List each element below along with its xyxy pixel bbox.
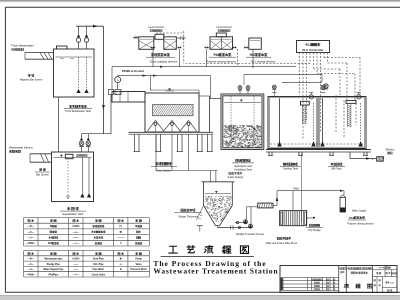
tank B internal box [346,101,356,104]
tank B feed pump top [321,85,325,90]
effluent outfall box [377,157,384,162]
settler pedestal [129,131,214,133]
equalization water line [54,156,92,158]
sludge suction line 2 [235,222,245,224]
lime tank D2 [164,37,177,50]
svg-text:Settling Tank: Settling Tank [283,167,299,171]
equalization suction pipes [81,157,83,193]
sludge line valve [230,225,232,229]
thickener feed pipes [209,171,211,182]
tank T1 top box [57,46,68,49]
svg-text:—B—: —B— [28,225,35,228]
legend table lower grid [24,250,150,252]
thickener water line [205,193,231,195]
equalization top box [65,154,73,158]
main title chinese [170,245,177,247]
lime level control dashed line [183,31,185,64]
tank top riser flanges [272,91,276,93]
tank B right bottom pump [359,141,363,147]
lime valve V2 [178,46,181,49]
svg-text:Bar Screen: Bar Screen [36,173,49,176]
legend table upper grid [24,217,150,219]
thickener speckle fill [205,196,232,222]
tank T1 water line [56,56,93,58]
svg-text:—<—: —<— [73,242,80,245]
svg-text:Polymer dosing devices: Polymer dosing devices [347,222,374,225]
title block company [347,267,349,269]
svg-text:Equalization Tank: Equalization Tank [62,212,84,216]
chemical line 2 [118,75,211,77]
tube settler drain circles [154,123,157,126]
svg-text:HCL dosing devices: HCL dosing devices [251,60,276,64]
MB tank B [318,97,366,149]
label bar screen [38,168,40,171]
title block drawing name [343,283,346,286]
svg-text:<±000>: <±000> [72,225,81,228]
thick wastewater tank T1 [54,49,95,97]
screw conveyor [258,203,273,208]
svg-text:PAM: PAM [293,186,298,190]
tank A right bottom pump [311,141,315,147]
tank B hatch column [347,104,349,127]
polymer valve V4 [233,46,236,49]
svg-text:Plate and Frame Filtei Press: Plate and Frame Filtei Press [266,242,298,245]
title block project cell [338,267,340,270]
main title underline [161,256,254,258]
label dry sludge [309,223,311,225]
svg-text:-o-: -o- [119,264,122,266]
press feed riser [273,205,277,207]
HCL tank D4 [249,38,261,49]
thick tank pump P2 [84,38,88,42]
inlet meter boxes [109,90,114,95]
svg-text:Water Supply Pipe: Water Supply Pipe [43,268,64,271]
tank A top pump circle [309,95,313,99]
label hydrolysis tank [236,158,238,160]
chemical line 1 [112,66,296,68]
plate and frame filter press [280,211,307,226]
svg-text:—B—: —B— [28,259,35,261]
polymer downpipes [206,49,208,67]
settler support legs [134,134,136,151]
press filtrate line [301,153,303,222]
equalization lift pump P3 [79,141,84,146]
lime feed tick marks [133,37,139,39]
right piping to pumps [244,73,322,75]
hydrolysis sludge speckle fill [224,125,263,148]
label tube settler [156,162,159,164]
svg-text:Magnetic Bar Screen: Magnetic Bar Screen [20,78,43,81]
svg-text:Sludge Transfer Pumps: Sludge Transfer Pumps [236,232,265,236]
title block frame [280,266,397,293]
svg-text:—J—: —J— [28,237,35,240]
tube settler water mark [168,89,171,92]
effluent pipe [349,152,351,159]
label thick wastewater tank [69,104,71,106]
tube settler outlet chamber [209,96,211,132]
tube settler hopper zigzag [148,121,197,132]
equalization pump riser [110,95,112,134]
svg-text:Θ: Θ [120,269,122,271]
polymer connector box [216,33,226,37]
legend table lower text [28,252,30,254]
pipe down to equalization header [103,26,105,134]
tank B top pump circle [357,95,361,99]
equalization lift pump P4 [86,141,91,146]
svg-text:PAMPipe: PAMPipe [48,273,59,276]
svg-text:HCL Pipe: HCL Pipe [93,264,104,266]
sludge pump P5 [244,220,248,224]
capped cleanout pipe [199,226,201,232]
svg-text:——: —— [74,264,79,266]
svg-text:Water Supply: Water Supply [352,210,367,213]
svg-text:Valve: Valve [136,264,143,266]
label lime dosing device [151,53,153,55]
svg-text:Dry Sludge: Dry Sludge [308,229,321,232]
PAM solution tank [340,198,346,213]
tank A feed pump top [272,85,276,90]
tube settler inclined tube media hatch [153,105,194,116]
svg-text:Level Control: Level Control [148,25,164,29]
svg-text:Wastewater Treatement Station: Wastewater Treatement Station [153,267,278,276]
tanks internal dashed level line [270,143,364,145]
polymer tank D3 [210,37,233,50]
label settling tank A [283,162,285,164]
svg-text:A: A [117,78,119,82]
svg-text:Sludge Thickener: Sludge Thickener [178,216,198,219]
label sludge return pump [229,171,231,173]
settling tank A [268,97,318,149]
hydrolysis tank outer [221,94,264,150]
svg-text:Acidifying Tank: Acidifying Tank [234,168,253,172]
equalization tank [52,152,94,202]
svg-text:———: ——— [117,237,125,240]
PLC dashed control drops [299,53,301,96]
sludge header [156,170,218,172]
thick tank drain to equalization [57,97,59,152]
svg-text:Effluent: Effluent [386,147,395,151]
press discharge [307,217,314,219]
label Magnetic Bar Screen [27,73,29,76]
svg-text:Hydrolysis and: Hydrolysis and [234,164,252,168]
lime connector box [155,34,164,39]
bottom gray strip [0,296,400,300]
tube settler outlet pipe [210,98,222,100]
thick wastewater inlet channel [25,52,54,54]
tube settler tank [145,93,199,132]
tank T1 suction pipe 1 [78,57,80,91]
flow meter circle A [115,77,121,83]
svg-text:—J—: —J— [28,269,35,271]
polymer valve V3 [205,46,208,49]
HCL downpipe [252,49,254,68]
HCL valve V5 [244,46,247,49]
tank A internal box [301,101,310,105]
svg-text:Sludge Pipe: Sludge Pipe [47,264,61,266]
label level gauge [76,154,78,156]
svg-text:Polymer dosing devices: Polymer dosing devices [206,60,236,64]
svg-text:Pipe Meter: Pipe Meter [93,268,105,271]
label equalization tank [67,207,70,209]
hydrolysis water line [224,101,261,103]
thickener outlet pipe [217,226,219,228]
lime outlet tick marks [176,37,186,39]
sludge pump risers [246,207,248,220]
svg-text:Wastewater pipe: Wastewater pipe [44,258,63,261]
PLC dashed control runs [184,63,310,65]
svg-text:(Later Supply): (Later Supply) [228,176,244,179]
equalization float dashed [67,158,69,196]
hydrolysis tank inner [223,96,262,148]
tank A internal pipe [279,98,281,146]
svg-text:Slow Pipe: Slow Pipe [93,259,105,261]
wire PAM long line arrow [340,190,344,192]
influent channel [30,153,52,155]
svg-text:Clow coagling devices: Clow coagling devices [150,60,178,64]
svg-text:Pressure Meter: Pressure Meter [130,268,147,271]
tank A hatch column [302,105,304,124]
extra dashed drops tank B [335,95,337,132]
svg-text:Thick Wastewater: Thick Wastewater [11,44,34,48]
label MB tank [331,163,333,165]
svg-text:—o—: —o— [73,231,80,234]
svg-text:Wastewater influent: Wastewater influent [9,145,33,149]
lime tank D1 [139,37,154,50]
label sludge thickener [181,208,183,210]
svg-text:Check Valve: Check Valve [92,274,106,276]
svg-text:MB Tank: MB Tank [331,167,342,171]
hydrolysis top pumps [238,86,242,91]
svg-text:—>—: —>— [73,237,80,240]
thick tank pump P1 [76,38,80,42]
drawing border frame [5,6,400,8]
svg-text:Level Control: Level Control [216,25,232,29]
svg-text:(*): (*) [120,225,123,228]
svg-text:PLC Controller: PLC Controller [302,48,324,52]
hydrolysis internal dashed [230,96,232,146]
svg-text:—PAM—: —PAM— [26,273,36,276]
thick tank discharge header [76,25,104,27]
sludge pump P6 [249,224,253,228]
svg-text:—F—: —F— [28,231,35,234]
svg-text:—F—: —F— [28,264,35,266]
tank B internal pipe [322,98,324,146]
lime valve V1 [151,46,154,49]
equalization pump header [82,133,112,135]
svg-text:Pump: Pump [135,259,142,261]
svg-text:—PAM—: —PAM— [26,242,37,245]
filters pedestal legs [268,152,270,156]
settler inlet channel [112,92,145,103]
svg-text:—<—: —<— [73,273,80,276]
legend table upper text [28,219,30,221]
svg-text:——: —— [74,269,79,271]
thickener funnel [204,206,216,226]
label filter press [277,236,279,238]
press feed line [277,190,344,192]
svg-text:P009N at Ground: P009N at Ground [122,69,144,73]
lime dosing downpipe [152,49,154,66]
tank T1 suction pipe 2 [86,57,88,91]
thickener ladder [196,206,203,221]
svg-text:Thick Wastewater Tank: Thick Wastewater Tank [65,110,91,113]
thickener walls [203,182,205,206]
filters pedestal [266,149,371,151]
top gray strip [0,0,400,1]
PLC controller box U1 [297,41,330,53]
svg-text:<±000>: <±000> [72,258,80,261]
